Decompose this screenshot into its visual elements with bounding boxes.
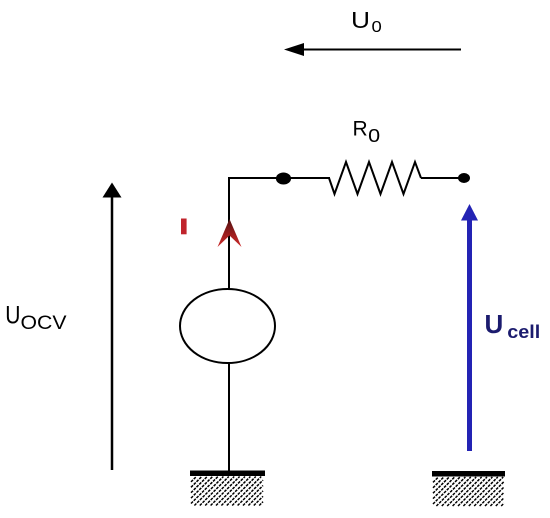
current arrowhead (red dart) [218,219,242,247]
label I (current) [181,219,187,235]
arrow Uocv (black, pointing up) [103,183,122,471]
resistor R0 [329,162,421,194]
arrow U0 (top, pointing left) [284,43,461,56]
arrow Ucell (blue, pointing up) [461,204,478,451]
node (junction dot left) [276,173,291,185]
ground (right) [432,471,505,506]
ground (left) [190,471,265,506]
node (terminal dot right) [458,173,470,183]
wire: horizontal top wire left segment [229,177,330,179]
wire: vertical wire from source to ground [228,363,230,471]
wire: horizontal top wire right segment [421,177,463,179]
wire: vertical wire from corner to source [228,177,230,290]
voltage source V1 (ellipse) [180,289,275,363]
